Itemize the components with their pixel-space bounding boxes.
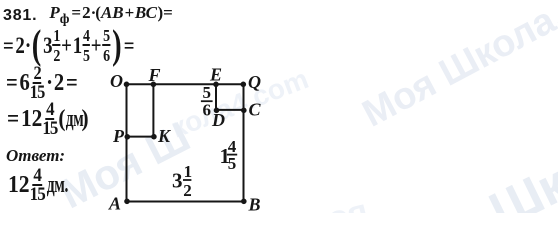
outer square O-Q-B-A <box>127 84 244 201</box>
segment D-C <box>216 109 244 111</box>
svg-text:5: 5 <box>228 154 237 173</box>
segment P-K <box>127 136 154 138</box>
svg-text:P: P <box>112 126 125 146</box>
svg-text:E: E <box>209 65 222 85</box>
watermark bottom-left "Моя Школа" <box>52 113 190 204</box>
svg-text:K: K <box>157 126 172 146</box>
watermark bottom-right fragment <box>480 140 558 222</box>
svg-text:2: 2 <box>183 181 192 200</box>
segment E-D <box>215 84 217 110</box>
point dots <box>124 82 247 205</box>
svg-text:B: B <box>248 195 261 214</box>
svg-text:O: O <box>110 71 123 91</box>
svg-text:1: 1 <box>184 162 193 181</box>
svg-text:D: D <box>211 110 225 130</box>
watermark bottom-edge letter tops <box>324 192 369 227</box>
svg-text:A: A <box>108 194 121 214</box>
label 3 1/2 <box>172 162 192 200</box>
line 4: = 12 4/15 (dm) <box>7 103 89 135</box>
svg-text:3: 3 <box>172 168 183 192</box>
label 1 4/5 <box>220 137 237 173</box>
watermark mid "кола4.com" <box>167 63 311 139</box>
svg-text:F: F <box>148 65 161 85</box>
answer 12 4/15 dm <box>8 169 62 201</box>
Otvet: <box>6 147 65 164</box>
svg-text:6: 6 <box>203 101 212 120</box>
svg-text:Q: Q <box>248 72 261 92</box>
line 2: = 2*(3 1/2 + 1 4/5 + 5/6) = <box>3 30 135 62</box>
segment F-K <box>152 84 154 136</box>
svg-text:C: C <box>249 100 262 120</box>
watermark top-right "Моя Школа.со" <box>356 0 558 125</box>
line 1: 381. P_f = 2*(AB+BC)= <box>3 4 173 23</box>
label 5/6 <box>203 83 212 119</box>
line 3: = 6 2/15 * 2 = <box>6 67 78 99</box>
point labels <box>108 65 262 215</box>
svg-text:5: 5 <box>203 83 212 102</box>
